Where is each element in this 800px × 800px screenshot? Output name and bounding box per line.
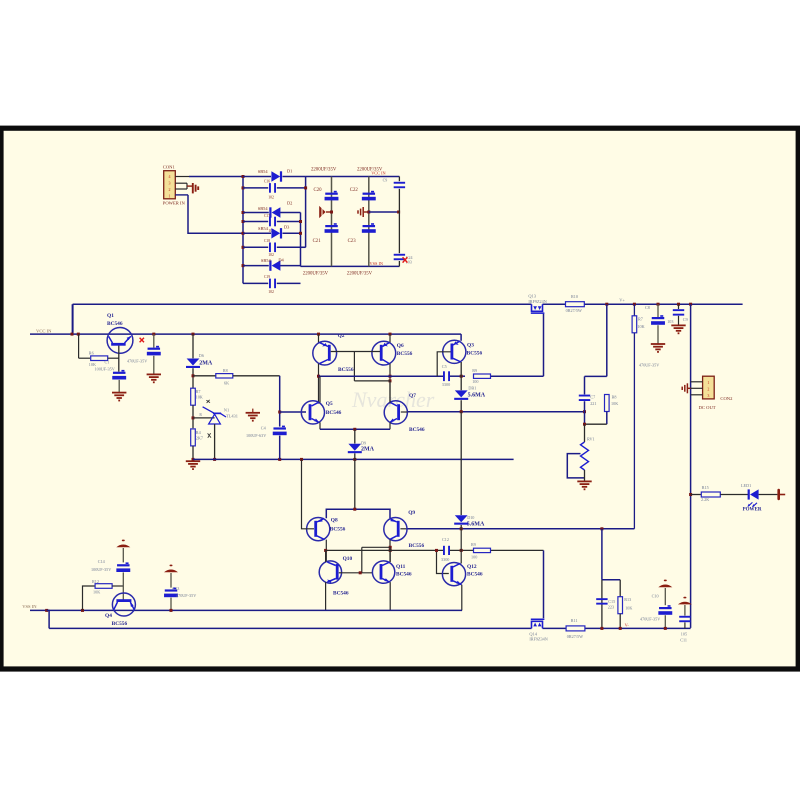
wire C22/C23 vertical <box>368 177 370 267</box>
resistor R7r 10K <box>632 316 637 333</box>
svg-text:Q4: Q4 <box>105 613 112 619</box>
svg-text:C16: C16 <box>264 179 270 183</box>
resistor R6 <box>78 334 80 358</box>
svg-text:IRF9Z34N: IRF9Z34N <box>529 637 547 642</box>
wire RV1 up <box>584 424 586 442</box>
svg-text:CON1: CON1 <box>163 165 176 170</box>
svg-text:Q8: Q8 <box>331 518 338 524</box>
svg-text:BC546: BC546 <box>107 321 123 327</box>
wire bridge vertical B <box>305 177 307 248</box>
svg-text:BC556: BC556 <box>338 367 354 373</box>
capacitor C5 <box>443 371 445 381</box>
node mid right <box>397 211 400 214</box>
wire island2 left <box>601 580 603 629</box>
capacitor C7 <box>579 395 590 397</box>
wire R12 left leg <box>83 586 95 610</box>
transistor Q5 <box>301 401 324 424</box>
wire ground rail <box>193 458 514 460</box>
wire VCC IN main <box>30 333 461 335</box>
svg-text:R12: R12 <box>92 579 99 584</box>
transistor Q14 mosfet <box>532 621 543 628</box>
wire R7r long down <box>633 333 635 529</box>
wire VSS IN main <box>30 609 462 611</box>
wire Q6 down <box>389 364 391 404</box>
node bus-D4 <box>242 264 245 267</box>
wire Q10 base right <box>339 572 343 574</box>
wire VCC top rail of cap bank <box>306 176 400 178</box>
svg-text:BC556: BC556 <box>330 527 346 533</box>
svg-text:0R27/5W: 0R27/5W <box>567 634 583 639</box>
wire Q10-Q11 base wire <box>343 572 373 574</box>
svg-text:105: 105 <box>681 632 687 637</box>
marker x2 <box>208 433 211 438</box>
node rail-island <box>605 303 608 306</box>
transistor Q8 <box>307 518 330 541</box>
wire Q8-Q9 top link <box>326 509 390 518</box>
capacitor C15 <box>596 598 607 600</box>
marker red C2 <box>140 338 144 342</box>
svg-text:5.6MA: 5.6MA <box>468 393 486 399</box>
wire mid rail <box>319 375 444 377</box>
node bus-D3 <box>242 232 245 235</box>
node Q9-x <box>389 546 392 549</box>
node sub-island2L <box>600 627 603 630</box>
svg-text:2MA: 2MA <box>199 360 213 366</box>
svg-text:C5: C5 <box>442 364 447 369</box>
wire island2 top jog <box>602 579 620 581</box>
wire C19 row <box>243 282 268 284</box>
capacitor C19 <box>269 279 271 289</box>
node bus-D2 <box>242 211 245 214</box>
svg-text:D1: D1 <box>287 169 292 174</box>
wire Q9 base right <box>400 528 406 530</box>
wire island right lower <box>606 412 608 425</box>
svg-text:10K: 10K <box>611 401 618 406</box>
svg-text:SB54: SB54 <box>258 206 269 211</box>
wire RV1 wiper loop <box>567 454 584 478</box>
node C12row-D10b <box>460 549 463 552</box>
svg-text:R9: R9 <box>472 368 477 373</box>
svg-text:2200UF/35V: 2200UF/35V <box>311 167 337 172</box>
marker x1 <box>206 400 210 403</box>
svg-text:C1: C1 <box>105 360 110 365</box>
resistor R15 <box>701 492 720 497</box>
wire VSS bottom rail of cap bank <box>301 265 400 267</box>
power flag C11 <box>678 597 692 605</box>
svg-text:3: 3 <box>169 181 171 186</box>
resistor R13 10K <box>618 597 623 614</box>
marker red C24 <box>403 257 408 262</box>
node bus-C16 <box>242 186 245 189</box>
connector CON2 <box>703 376 715 399</box>
svg-text:100UF-35V: 100UF-35V <box>91 567 111 572</box>
diode D3 <box>271 228 280 238</box>
capacitor C10 <box>668 605 671 607</box>
diode D6 <box>187 359 200 366</box>
capacitor C11 <box>679 616 690 618</box>
wire R8b to gnd rail <box>192 446 194 460</box>
connector CON1 <box>164 171 176 199</box>
svg-text:R11: R11 <box>571 618 578 623</box>
ground CON2 <box>688 387 691 389</box>
wire R7 to tap <box>192 405 194 428</box>
wire drive row <box>406 528 634 530</box>
resistor R8b 2K7 <box>191 429 196 446</box>
transistor Q12 <box>442 563 465 586</box>
wire N1 anode down <box>214 424 216 459</box>
wire D6 to divider <box>192 368 194 388</box>
svg-text:470UF-35V: 470UF-35V <box>640 617 660 622</box>
wire VSS sub rail <box>49 627 531 629</box>
wire D1 row <box>243 176 271 178</box>
capacitor C24 bottom small <box>394 254 405 256</box>
node main-C2 <box>152 333 155 336</box>
svg-text:BC546: BC546 <box>409 427 425 433</box>
wire sub rail drop <box>47 610 49 628</box>
node Q6-rail <box>389 375 392 378</box>
node vasrow-DB1 <box>460 410 463 413</box>
wire AC1 pin1 to bridge <box>189 176 243 178</box>
capacitor C23 <box>371 223 374 225</box>
svg-text:C8: C8 <box>645 305 650 310</box>
transistor Q3 <box>443 340 466 363</box>
wire Q6 up <box>389 334 391 343</box>
wire Q10-Q11 short link <box>362 546 390 548</box>
diode D4 <box>272 260 281 270</box>
wire LED to plug <box>759 494 778 496</box>
diode LED1 <box>750 489 759 499</box>
wire Q11 collector up <box>389 547 391 562</box>
capacitor C8 <box>657 304 659 317</box>
svg-text:CON2: CON2 <box>720 396 733 401</box>
svg-text:SB54: SB54 <box>261 258 272 263</box>
wire C14 top stub <box>122 548 124 562</box>
node vss-sub <box>45 609 48 612</box>
wire Q12 emitter down <box>461 585 463 611</box>
capacitor C6 top small <box>394 182 405 184</box>
wire D2 row <box>243 212 269 214</box>
LED arrows <box>748 502 757 506</box>
svg-text:Q2: Q2 <box>338 333 345 339</box>
wire bridge left bus <box>242 177 244 284</box>
ground C9 <box>671 325 685 333</box>
node rail-DB1 <box>460 375 463 378</box>
capacitor C1 <box>121 370 124 372</box>
wire C17 row <box>243 221 268 223</box>
node gndrail-q <box>300 458 303 461</box>
svg-text:BC556: BC556 <box>112 621 128 627</box>
svg-text:POWER: POWER <box>743 507 762 512</box>
wire C10 down <box>664 615 666 628</box>
wire RV1 bottom <box>584 470 586 481</box>
ground C2 <box>147 374 161 382</box>
wire island left upper <box>584 376 586 394</box>
capacitor C20 <box>334 191 337 193</box>
transistor Q9 <box>384 518 407 541</box>
wire R7r branch upper <box>633 304 635 316</box>
svg-text:C22: C22 <box>350 188 359 193</box>
wire Q2 down <box>318 364 320 404</box>
svg-text:SB54: SB54 <box>258 226 269 231</box>
svg-text:VSS IN: VSS IN <box>370 261 384 266</box>
svg-text:Q7: Q7 <box>409 393 416 399</box>
capacitor C2 <box>153 334 155 348</box>
wire C1 to ground <box>118 380 120 393</box>
wire Q12 emitter corner <box>461 609 463 611</box>
svg-text:Q3: Q3 <box>467 343 474 349</box>
svg-text:2.2K: 2.2K <box>701 497 709 502</box>
svg-text:470UF-35V: 470UF-35V <box>639 362 659 367</box>
svg-text:C9: C9 <box>383 178 388 183</box>
svg-text:D3: D3 <box>284 224 290 229</box>
svg-text:6K: 6K <box>224 380 229 385</box>
transistor Q10 <box>319 561 341 583</box>
svg-text:4: 4 <box>169 174 171 179</box>
wire right vertical cap bank <box>398 177 400 182</box>
svg-text:2200UF/35V: 2200UF/35V <box>347 271 373 276</box>
wire C20/C21 vertical <box>331 177 333 267</box>
power flag C10 <box>658 580 672 588</box>
svg-text:Q12: Q12 <box>467 564 477 570</box>
wire Q2 up <box>318 334 320 343</box>
wire CON2 pin3 <box>691 394 703 396</box>
ground mid right bank <box>364 211 369 213</box>
svg-text:1: 1 <box>169 194 171 199</box>
wire Q2-Q6 base tie <box>331 351 380 353</box>
wire R8 row <box>193 375 216 377</box>
node driverow-D10 <box>460 527 463 530</box>
wire CON1 pin4 stub <box>175 194 188 196</box>
svg-text:R8: R8 <box>612 394 617 399</box>
capacitor C9 <box>678 304 680 309</box>
wire C11 top stub <box>684 605 686 616</box>
diode D1 <box>271 171 280 181</box>
capacitor C4 <box>282 426 285 428</box>
wire CON2 riser <box>690 304 692 628</box>
diode D2 <box>272 207 281 217</box>
wire Q10 collector up <box>325 550 327 562</box>
svg-text:V-: V- <box>625 622 630 627</box>
wire Q8 base left <box>302 459 315 528</box>
svg-text:C23: C23 <box>348 239 357 244</box>
svg-text:BC546: BC546 <box>467 572 483 578</box>
wire Q7 collector up <box>389 381 391 403</box>
node main-Q6 <box>389 333 392 336</box>
node island-RV1 <box>583 423 586 426</box>
wire CON1 pin2 stub <box>175 182 187 184</box>
wire bridge vertical A <box>300 213 302 267</box>
wire island2 right upper <box>619 580 621 597</box>
wire Q3 base left-down <box>437 352 450 376</box>
potentiometer RV1 <box>581 442 589 470</box>
node Q9-C12row <box>389 549 392 552</box>
svg-text:R15: R15 <box>702 485 709 490</box>
wire C13 top stub <box>170 573 172 588</box>
resistor R14 <box>474 548 491 552</box>
wire vas row <box>408 411 585 413</box>
svg-text:R7: R7 <box>638 316 643 321</box>
svg-text:SB54: SB54 <box>258 169 269 174</box>
svg-text:470UF-35V: 470UF-35V <box>127 359 147 364</box>
resistor R9 <box>474 374 491 378</box>
node bus-C18 <box>242 246 245 249</box>
svg-text:IRF9Z24N: IRF9Z24N <box>528 299 546 304</box>
wire D9 branch <box>354 429 356 443</box>
svg-text:C14: C14 <box>98 559 106 564</box>
capacitor C22 <box>371 191 374 193</box>
svg-text:R9: R9 <box>471 542 476 547</box>
wire island left lower <box>584 401 586 424</box>
svg-text:DB1: DB1 <box>468 386 476 391</box>
transistor Q1 <box>107 328 133 354</box>
wire island2 riser <box>601 529 603 580</box>
svg-text:BC556: BC556 <box>467 351 483 357</box>
svg-text:10K: 10K <box>637 324 644 329</box>
wire main to Q3 emitter <box>460 334 462 341</box>
transistor Q4 <box>112 593 135 616</box>
svg-text:LED1: LED1 <box>741 483 751 488</box>
wire mid tap to right <box>369 211 400 213</box>
wire left riser <box>72 304 74 334</box>
svg-text:R: R <box>199 413 202 417</box>
svg-text:3: 3 <box>707 393 709 398</box>
svg-text:3300: 3300 <box>441 557 449 562</box>
node C20-C21 mid <box>330 211 333 214</box>
wire D9 down <box>354 453 356 509</box>
svg-text:R7: R7 <box>196 389 201 394</box>
wire C13 down <box>170 598 172 611</box>
svg-text:10K: 10K <box>93 590 100 595</box>
svg-text:C7: C7 <box>590 394 595 399</box>
node VA-D3 <box>299 232 302 235</box>
node C12row-Q12 <box>435 549 438 552</box>
node riser-R15 <box>689 493 692 496</box>
svg-text:2200UF/35V: 2200UF/35V <box>303 271 329 276</box>
wire D10 lower <box>460 525 462 529</box>
node Q2-rail <box>317 375 320 378</box>
ground mid left bank <box>326 211 332 213</box>
svg-text:D10: D10 <box>467 515 474 520</box>
svg-text:POWER IN: POWER IN <box>163 200 186 205</box>
node D6-R8 tee <box>192 374 195 377</box>
node emitters-D9 <box>353 428 356 431</box>
svg-text:C17: C17 <box>264 214 270 218</box>
svg-text:BC556: BC556 <box>409 543 425 549</box>
svg-text:C9: C9 <box>683 317 688 322</box>
svg-text:2: 2 <box>169 187 171 192</box>
node bus-C17 <box>242 220 245 223</box>
node gnd rail left <box>192 458 195 461</box>
capacitor C12 <box>443 546 445 555</box>
wire Q1 base down <box>118 346 120 372</box>
svg-text:10K: 10K <box>625 605 632 610</box>
wire R12 to Q4 base <box>112 585 123 587</box>
svg-text:102: 102 <box>268 196 274 200</box>
ground CON1 <box>187 185 192 187</box>
node Q6-vas <box>389 379 392 382</box>
node VA-C18 jog <box>301 246 306 248</box>
svg-text:VCC IN: VCC IN <box>36 329 52 334</box>
svg-text:223: 223 <box>608 604 614 609</box>
wire CON1 pin1 stub <box>175 176 189 178</box>
power plug symbol <box>777 489 780 500</box>
node rail-R7 <box>633 303 636 306</box>
svg-text:R8: R8 <box>223 368 228 373</box>
diode DB1 zener <box>455 390 468 397</box>
wire D3 row <box>243 232 271 234</box>
wire R15 to LED <box>720 494 748 496</box>
node gndrail-C4 <box>278 458 281 461</box>
svg-text:R10: R10 <box>571 294 578 299</box>
resistor R11 <box>566 626 585 631</box>
svg-text:C18: C18 <box>264 239 270 243</box>
svg-text:Q10: Q10 <box>343 556 353 562</box>
node rail-C9 <box>677 303 680 306</box>
svg-text:C12: C12 <box>442 537 449 542</box>
capacitor C18 <box>269 243 271 253</box>
svg-text:BC546: BC546 <box>326 410 342 416</box>
resistor R10 <box>566 302 585 307</box>
svg-text:C20: C20 <box>314 188 323 193</box>
svg-text:VSS IN: VSS IN <box>22 604 37 609</box>
svg-text:470UF-35V: 470UF-35V <box>176 593 196 598</box>
svg-text:2K7: 2K7 <box>196 436 203 441</box>
svg-text:5.6MA: 5.6MA <box>467 522 485 528</box>
svg-text:V+: V+ <box>619 298 625 303</box>
ground RV1 <box>577 481 591 489</box>
transistor Q2 <box>313 341 337 365</box>
wire Q3 collector down <box>460 362 462 390</box>
ground C8 <box>651 344 665 352</box>
node vss-R12 <box>81 609 84 612</box>
wire Q5 base row <box>280 411 306 413</box>
svg-text:221: 221 <box>590 401 596 406</box>
svg-text:C11: C11 <box>680 637 687 642</box>
svg-text:Q9: Q9 <box>408 510 415 516</box>
svg-text:BC546: BC546 <box>396 572 412 578</box>
wire R15 row <box>691 494 701 496</box>
svg-text:VCC IN: VCC IN <box>371 171 385 176</box>
wire Q9 emitter down <box>389 540 391 562</box>
wire top loop rail <box>73 303 532 305</box>
wire Q7 base right <box>401 411 408 413</box>
node main-Q2 <box>317 333 320 336</box>
transistor N1 TL431 <box>193 417 215 419</box>
capacitor C16 <box>269 183 271 193</box>
ground reference <box>186 461 200 469</box>
wire island riser <box>606 304 608 376</box>
svg-text:3300: 3300 <box>442 382 450 387</box>
transistor Q13 mosfet <box>532 304 543 311</box>
node VA-C17 <box>299 220 302 223</box>
node N1-gnd <box>213 458 216 461</box>
svg-text:C19: C19 <box>264 275 270 279</box>
svg-text:C15: C15 <box>608 599 615 604</box>
transistor Q11 <box>372 561 394 583</box>
wire Q4 base up <box>122 572 124 599</box>
ground mid <box>246 413 260 421</box>
node vss-C13 <box>170 609 173 612</box>
node C22-C23 mid <box>367 211 370 214</box>
svg-text:Nvarcher: Nvarcher <box>351 387 435 412</box>
svg-text:1: 1 <box>707 380 709 385</box>
wire D6 branch <box>192 334 194 358</box>
wire D4 row <box>243 265 269 267</box>
svg-text:Q1: Q1 <box>107 313 114 319</box>
wire AC2 pin4 down <box>188 195 243 233</box>
wire C10 top stub <box>664 588 666 605</box>
node driverow-island <box>600 527 603 530</box>
